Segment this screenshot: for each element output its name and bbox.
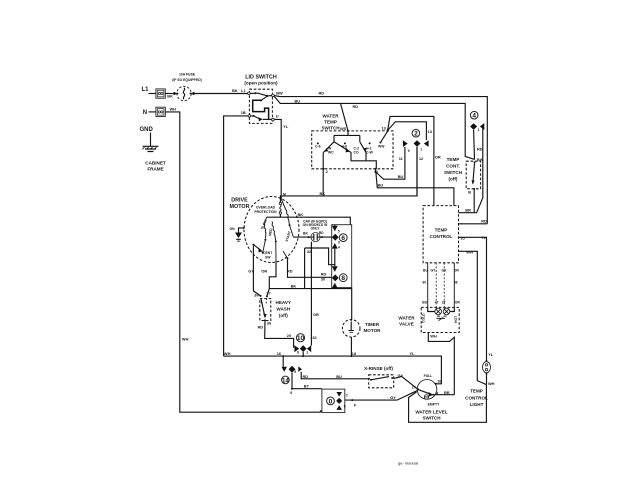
svg-text:X-RINSE (off): X-RINSE (off): [364, 366, 393, 371]
svg-text:BK: BK: [303, 232, 308, 236]
x-rinse contact: [370, 377, 393, 381]
svg-text:BU: BU: [398, 174, 404, 179]
wire fuse to lid switch BK: [191, 93, 248, 95]
svg-text:RD: RD: [287, 269, 293, 274]
svg-text:16: 16: [277, 351, 282, 356]
svg-text:30: 30: [422, 281, 426, 285]
svg-text:2: 2: [414, 131, 418, 138]
wire WH water valve out: [428, 333, 454, 395]
svg-text:OR: OR: [455, 300, 461, 304]
svg-text:11: 11: [399, 156, 404, 161]
svg-text:38: 38: [454, 281, 458, 285]
svg-text:RD: RD: [481, 218, 487, 223]
svg-text:BW: BW: [276, 90, 283, 95]
fuse F1 10A: [174, 86, 195, 100]
svg-text:1: 1: [478, 128, 480, 132]
svg-text:BU: BU: [422, 300, 427, 304]
wire connector2 pin12 down to BK: [416, 147, 418, 196]
svg-text:WH: WH: [466, 250, 473, 255]
connector plug 6: [332, 225, 347, 249]
wire node 13 to connector 2 pin 13: [388, 122, 427, 140]
svg-text:N: N: [143, 110, 147, 116]
water temp switch contact 3: [360, 142, 371, 161]
start winding: [281, 199, 293, 237]
water temp switch common bus: [334, 130, 360, 142]
svg-text:WATER LEVEL: WATER LEVEL: [415, 409, 448, 414]
svg-text:YL: YL: [283, 124, 289, 129]
svg-text:H-6: H-6: [342, 145, 348, 149]
wire connector2 pin11 down BU: [375, 147, 405, 179]
svg-text:2: 2: [326, 169, 329, 174]
svg-text:LIGHT: LIGHT: [470, 402, 484, 407]
svg-text:10A FUSE: 10A FUSE: [179, 72, 196, 76]
svg-text:YL: YL: [410, 351, 416, 356]
svg-text:WH: WH: [488, 381, 495, 386]
wire BK connector to fuse: [165, 93, 177, 95]
svg-text:4: 4: [338, 245, 340, 249]
svg-text:GY: GY: [248, 269, 254, 274]
svg-text:OR: OR: [454, 269, 460, 273]
svg-text:WATER: WATER: [398, 315, 415, 320]
svg-text:BT: BT: [304, 383, 310, 388]
svg-text:C-W: C-W: [366, 150, 374, 154]
wire connector 0 to water level switch GY: [345, 391, 417, 400]
svg-text:BK: BK: [232, 88, 238, 93]
svg-text:BU: BU: [295, 98, 301, 103]
svg-text:8: 8: [297, 350, 299, 354]
wire WH neutral rail: [165, 112, 320, 412]
wire L1 to connector: [149, 93, 156, 95]
svg-text:3: 3: [338, 241, 340, 245]
wire connector6 pin4 loop: [305, 248, 335, 265]
svg-text:16: 16: [437, 379, 441, 383]
water level switch empty contact: [424, 395, 428, 399]
svg-text:WH: WH: [170, 107, 177, 112]
wire connector 14 diamond down: [292, 373, 322, 389]
svg-text:PROTECTION: PROTECTION: [254, 210, 277, 214]
water temp switch box: [312, 131, 393, 169]
water valve cold solenoid: [428, 307, 445, 320]
svg-text:BU: BU: [423, 269, 428, 273]
svg-text:BU: BU: [336, 374, 342, 379]
wire water level switch to valve WH: [434, 394, 454, 396]
temp cont switch box: [466, 161, 480, 189]
svg-text:8: 8: [290, 391, 292, 395]
centrifugal switch: [252, 240, 288, 261]
svg-text:32: 32: [312, 335, 317, 340]
svg-text:0: 0: [329, 398, 333, 405]
lid switch upper contact: [248, 92, 275, 97]
wire BK motor bottom to timer rail: [269, 288, 351, 290]
wire N to connector: [149, 111, 156, 113]
svg-text:FULL: FULL: [424, 374, 433, 378]
svg-text:C-6: C-6: [315, 145, 321, 149]
svg-text:RD: RD: [477, 146, 483, 151]
svg-text:13: 13: [382, 126, 387, 131]
wire lid switch lower input from left rail: [224, 116, 249, 356]
water valve box: [421, 307, 459, 332]
svg-text:T: T: [346, 393, 349, 398]
svg-text:(open position): (open position): [244, 80, 278, 85]
temp control light lamp: [483, 360, 491, 385]
svg-text:B: B: [468, 190, 471, 195]
svg-text:TEMP: TEMP: [435, 227, 448, 232]
overload protector: [279, 195, 282, 217]
svg-text:BK: BK: [320, 191, 326, 196]
svg-text:BK: BK: [298, 212, 304, 217]
temp cont switch contact: [472, 161, 476, 189]
wire node 13 to OR rail: [388, 116, 434, 205]
svg-text:CONT.: CONT.: [446, 163, 460, 168]
svg-text:GND: GND: [140, 127, 154, 133]
svg-text:SW: SW: [265, 255, 271, 259]
wire YL lid switch to drive motor: [274, 119, 281, 199]
svg-text:WATER: WATER: [322, 114, 339, 119]
svg-text:9: 9: [408, 149, 410, 153]
water temp switch contact 4 to node 13: [380, 129, 389, 143]
svg-text:GY: GY: [390, 395, 396, 400]
svg-text:SWITCH: SWITCH: [444, 170, 463, 175]
ground cabinet frame symbol: [143, 133, 159, 152]
node junction dot WH rail at connector 0: [320, 410, 322, 412]
svg-text:YL: YL: [488, 352, 494, 357]
wire connector 14 pin to x-rinse: [301, 372, 370, 379]
svg-text:1: 1: [306, 350, 308, 354]
wire RD motor to connector 8: [288, 258, 333, 277]
connector plug 4: [470, 111, 484, 130]
svg-text:2T: 2T: [442, 300, 447, 304]
svg-text:SLOW: SLOW: [260, 218, 268, 230]
svg-text:L1: L1: [142, 87, 150, 93]
wire connector4 diamond down to BW node: [473, 130, 476, 160]
svg-text:ONLY: ONLY: [310, 226, 320, 230]
wire x-rinse to water level switch: [394, 376, 418, 389]
svg-text:TEMP: TEMP: [470, 389, 483, 394]
svg-text:8: 8: [341, 275, 345, 282]
slow winding: [264, 217, 267, 241]
svg-text:GY: GY: [442, 269, 448, 273]
svg-text:BK: BK: [291, 284, 297, 289]
svg-text:BK: BK: [167, 93, 173, 98]
connector plug 8: [332, 265, 347, 289]
svg-text:VALVE: VALVE: [399, 322, 414, 327]
svg-text:WS: WS: [340, 126, 347, 131]
wire OR motor to heavy wash 37: [267, 260, 276, 296]
water valve hot solenoid: [443, 307, 454, 316]
svg-text:L1: L1: [241, 88, 246, 93]
svg-text:EMPTY: EMPTY: [428, 402, 440, 406]
temp control box: [423, 206, 458, 263]
wire timer motor bottom to main line: [350, 337, 352, 356]
capacitor C1: [293, 233, 332, 242]
svg-text:9: 9: [294, 370, 296, 374]
svg-text:DRIVE: DRIVE: [231, 198, 248, 204]
svg-text:14: 14: [282, 377, 289, 384]
svg-text:START: START: [285, 230, 293, 243]
svg-text:RD: RD: [303, 374, 309, 379]
svg-text:MOTOR: MOTOR: [363, 328, 381, 333]
timer motor dashed circle: [342, 319, 360, 337]
ground GN drive motor: [235, 227, 245, 241]
water level switch arm: [417, 388, 434, 396]
svg-text:YL: YL: [481, 235, 487, 240]
water temp switch contact 1: [317, 142, 334, 170]
svg-text:13: 13: [428, 129, 433, 134]
wire water level switch bottom loop: [409, 385, 487, 423]
svg-text:ge- manual: ge- manual: [398, 461, 418, 466]
svg-text:6: 6: [341, 235, 345, 242]
heavy wash switch box: [260, 299, 271, 321]
svg-text:TEMP: TEMP: [447, 157, 460, 162]
wire connector 10 to main line: [302, 352, 304, 356]
svg-text:8: 8: [344, 404, 346, 408]
svg-text:F: F: [354, 403, 357, 408]
svg-text:BR: BR: [465, 207, 471, 212]
connector CN-L1: [156, 89, 165, 98]
svg-text:37: 37: [266, 290, 270, 295]
svg-text:RD: RD: [258, 325, 264, 330]
svg-text:SWITCH: SWITCH: [321, 126, 340, 131]
svg-text:WH: WH: [430, 333, 437, 338]
lid switch interlock linkage: [253, 96, 269, 119]
wire BK motor to connector 2: [281, 147, 417, 197]
svg-text:HEAVY: HEAVY: [276, 300, 292, 305]
lid switch lower contact: [248, 115, 274, 122]
svg-text:36: 36: [267, 321, 272, 326]
drive motor M1 dashed circle: [244, 197, 299, 263]
water temp switch contact 2: [334, 142, 377, 170]
connector CN-N: [156, 107, 165, 116]
svg-text:RD: RD: [321, 271, 327, 276]
svg-text:30: 30: [321, 277, 325, 282]
wire temp control 35 to YL lamp rail: [459, 237, 487, 361]
wire temp control WH down: [459, 251, 487, 384]
svg-text:WASH: WASH: [276, 306, 290, 311]
lid switch S1 box: [249, 89, 272, 123]
med winding: [272, 222, 277, 243]
heavy wash switch contact: [260, 295, 268, 322]
svg-text:COLD: COLD: [422, 313, 426, 323]
temp control bottom wires to water valve: [428, 263, 455, 308]
connector plug 2: [403, 129, 429, 147]
svg-text:RD: RD: [319, 91, 325, 96]
wire heavy wash to connector 10: [265, 320, 294, 347]
svg-text:GN: GN: [230, 227, 236, 231]
svg-text:47: 47: [435, 300, 439, 304]
svg-text:SWITCH: SWITCH: [422, 416, 441, 421]
svg-text:CABINET: CABINET: [145, 160, 166, 165]
svg-text:WC: WC: [328, 150, 334, 154]
wire BU second line: [274, 97, 474, 160]
svg-text:20: 20: [287, 333, 291, 338]
svg-text:10: 10: [297, 335, 305, 342]
svg-text:OR: OR: [261, 269, 267, 274]
svg-text:35: 35: [460, 236, 465, 241]
svg-text:RD: RD: [319, 231, 324, 235]
svg-text:WW: WW: [378, 145, 385, 149]
water level switch full contact: [424, 374, 442, 385]
svg-text:18: 18: [352, 351, 357, 356]
wire temp cont switch to temp control: [473, 189, 475, 213]
wire RD right rail into temp control: [459, 223, 488, 225]
svg-text:12: 12: [419, 156, 424, 161]
svg-text:BR: BR: [444, 390, 450, 395]
wire RD top line to right rail: [274, 96, 487, 224]
svg-text:MED: MED: [268, 228, 273, 237]
svg-text:TEMP: TEMP: [324, 120, 337, 125]
svg-text:MOTOR: MOTOR: [230, 204, 250, 210]
wire BK overload to connector 6 box: [267, 217, 351, 225]
svg-text:1B: 1B: [241, 110, 246, 115]
water level switch circle: [417, 380, 437, 400]
svg-text:5: 5: [338, 229, 340, 233]
svg-text:CONTROL: CONTROL: [430, 234, 453, 239]
wire node 11 to temp control: [376, 170, 454, 206]
svg-text:WH: WH: [182, 337, 189, 342]
svg-text:TIMER: TIMER: [365, 322, 380, 327]
wire terminal 2 down to BK line: [322, 169, 324, 196]
svg-text:1: 1: [420, 147, 422, 151]
svg-text:(IF SO EQUIPPED): (IF SO EQUIPPED): [172, 78, 202, 82]
svg-text:BU: BU: [378, 182, 384, 187]
main bottom line: [224, 356, 442, 384]
svg-text:RD: RD: [353, 104, 359, 109]
svg-text:U: U: [276, 113, 279, 118]
connector plug 10: [294, 334, 311, 353]
svg-text:FRAME: FRAME: [147, 167, 163, 172]
wire connector4 pin down to temp control BR: [459, 127, 483, 213]
wire timer motor top to BK rail: [351, 288, 353, 320]
connector plug 14: [282, 355, 302, 384]
svg-text:(off): (off): [449, 177, 458, 182]
svg-text:CO: CO: [354, 150, 359, 154]
svg-text:OR: OR: [435, 154, 441, 159]
svg-text:OR: OR: [313, 312, 319, 317]
svg-text:4: 4: [472, 113, 476, 120]
svg-text:CONTROL: CONTROL: [465, 395, 488, 400]
svg-text:WH: WH: [224, 351, 231, 356]
svg-text:GY: GY: [431, 269, 437, 273]
svg-text:(off): (off): [279, 313, 288, 318]
wire BK start winding down to BK line: [304, 248, 306, 289]
connector 6-8 housing box: [332, 225, 352, 288]
wire RD branch to water temp switch: [341, 103, 349, 130]
wire cap bottom down to connector 10: [310, 242, 312, 346]
wire GY cent sw to heavy wash: [253, 246, 260, 296]
svg-text:HOT: HOT: [454, 315, 458, 323]
x-rinse switch box: [369, 375, 394, 388]
connector plug 0 box: [322, 389, 345, 413]
